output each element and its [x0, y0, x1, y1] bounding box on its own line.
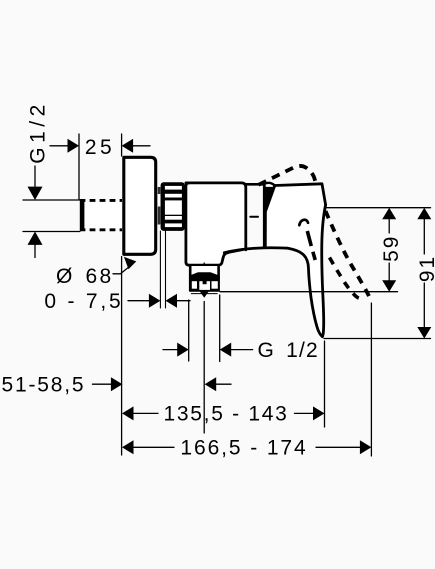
wire: extension line y=291.7 (outlet bottom, right) [220, 291, 398, 293]
wire: extension line nipple bottom [23, 231, 80, 233]
svg-text:59: 59 [380, 235, 403, 262]
handle raised position (dashed) lower edge, segment B [330, 258, 362, 299]
wire: extension line x=121.6 upper (25 dim right) [121, 134, 123, 156]
svg-text:G1/2: G1/2 [27, 100, 50, 164]
wire: extension line nipple top [23, 199, 80, 201]
pipe between escutcheon and nut [158, 187, 161, 225]
wire: extension line x=160.4 (0-7,5 left) [159, 231, 161, 308]
dimension 25 [50, 139, 150, 153]
svg-text:Ø 68: Ø 68 [56, 265, 114, 288]
valve body [186, 183, 245, 265]
dimension G1/2 thread (left vertical) [28, 166, 43, 258]
svg-text:25: 25 [85, 136, 115, 159]
handle (lever, solid position) [265, 184, 325, 336]
dimension 91 (right vertical) [416, 208, 435, 339]
wire: extension line x=371.4 (dashed handle tip) [370, 303, 372, 456]
dimension 0 - 7,5 [44, 290, 190, 313]
pipe nipple G1/2 (threaded) [80, 199, 122, 231]
handle raised position (dashed) upper edge, segment B [326, 211, 370, 301]
wire: extension line x=219.7 (G1/2 outlet right) [219, 295, 221, 362]
wire: extension line x=324.5 (handle tip) [324, 341, 326, 427]
svg-text:91: 91 [416, 255, 435, 282]
svg-text:0 - 7,5: 0 - 7,5 [44, 290, 123, 313]
wire: extension line x=204.2 outlet center [203, 302, 205, 434]
wire: extension line y=338.5 (handle tip bottom, right) [324, 338, 431, 340]
dimension 135,5 - 143 [122, 403, 325, 426]
svg-text:G 1/2: G 1/2 [258, 339, 319, 362]
outlet hose nut (G1/2) [189, 266, 220, 298]
dimension G 1/2 (outlet) [163, 339, 319, 362]
label Ø 68 with leader [56, 257, 136, 288]
wire: extension line x=188.7 (G1/2 outlet left) [188, 300, 190, 361]
dimension 166,5 - 174 [122, 437, 371, 460]
escutcheon (Ø68 plate, side view) [124, 157, 156, 254]
union nut (knurled) [161, 182, 185, 231]
wire: extension line y=207.7 (handle corner, right) [324, 207, 431, 209]
wire: extension line x=165.5 (0-7,5 right) [165, 231, 167, 308]
svg-text:135,5 - 143: 135,5 - 143 [164, 403, 289, 426]
dimension 59 (right vertical) [380, 208, 403, 292]
dimension 51-58,5 [2, 373, 232, 396]
handle raised position (dashed) upper edge, segment A [259, 166, 317, 186]
wire: extension line x=79 (25 dim left) [78, 134, 80, 199]
outlet center line [203, 263, 205, 273]
svg-text:166,5 - 174: 166,5 - 174 [180, 437, 307, 460]
wire: extension line x=121.6 lower (left datum) [121, 257, 123, 456]
handle raised position (dashed) lower edge, segment A [299, 220, 308, 225]
cartridge collar [246, 183, 275, 248]
svg-text:51-58,5: 51-58,5 [2, 373, 86, 396]
